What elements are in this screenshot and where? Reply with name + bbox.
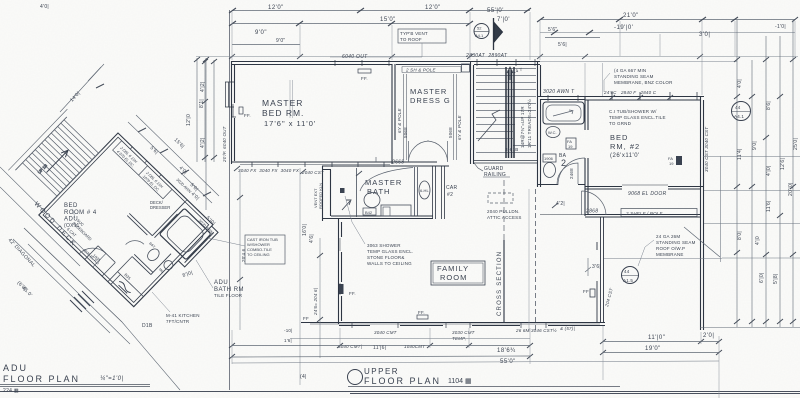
svg-text:M-41 KITCHEN: M-41 KITCHEN — [166, 313, 200, 318]
svg-text:19: 19 — [669, 161, 674, 166]
svg-text:BED: BED — [64, 203, 78, 209]
svg-text:TO CEILING: TO CEILING — [247, 252, 270, 257]
svg-text:FF: FF — [303, 316, 309, 321]
bath tub low — [381, 205, 411, 216]
svg-text:6Y & POLE: 6Y & POLE — [397, 107, 402, 133]
svg-text:(26'x11'0': (26'x11'0' — [610, 153, 640, 159]
svg-text:TEMP GLASS ENCL.: TEMP GLASS ENCL. — [367, 249, 413, 254]
svg-text:224 ▦: 224 ▦ — [3, 388, 19, 394]
extension verticals top band — [232, 12, 795, 95]
svg-text:TILE FLOOR: TILE FLOOR — [214, 293, 243, 298]
stair rails — [506, 67, 514, 158]
sheet left border line — [229, 10, 231, 390]
adu kitchen counter — [108, 257, 158, 307]
ticks on plate line — [229, 54, 703, 59]
deck steps hatch — [70, 291, 94, 312]
master dress shelf top — [402, 67, 461, 73]
wall: bath right — [433, 166, 445, 219]
adu bath door arc — [126, 235, 144, 253]
vent leader — [330, 43, 422, 57]
adu window marks top wall — [130, 147, 187, 202]
right dim col 5 — [792, 20, 794, 327]
svg-text:MEMBRANE, BNZ COLOR: MEMBRANE, BNZ COLOR — [614, 80, 673, 85]
svg-text:CAR: CAR — [446, 185, 458, 191]
svg-text:16'0|: 16'0| — [302, 224, 308, 236]
svg-text:20'/F. 6040 OUT: 20'/F. 6040 OUT — [222, 125, 227, 163]
svg-text:4'6|: 4'6| — [309, 234, 315, 243]
svg-text:TO ROOF: TO ROOF — [400, 37, 422, 42]
right dim col 1 — [736, 20, 738, 327]
svg-text:5068: 5068 — [448, 127, 453, 138]
adu bath bump walls — [178, 226, 218, 267]
svg-text:2668: 2668 — [391, 160, 404, 166]
bath2 tub — [543, 102, 584, 124]
closet door arc — [582, 191, 607, 215]
vent note box — [398, 29, 446, 43]
detail circle 44/A4.1 right — [732, 102, 751, 121]
bath2 wc — [546, 127, 560, 138]
svg-text:2468: 2468 — [569, 168, 574, 179]
site line 1 — [0, 167, 96, 262]
svg-text:2868: 2868 — [585, 209, 598, 215]
svg-text:MASTER: MASTER — [410, 87, 447, 96]
svg-text:B42: B42 — [365, 210, 373, 215]
svg-text:8'1|: 8'1| — [199, 99, 205, 108]
svg-text:3'6|: 3'6| — [592, 264, 601, 270]
left dim col — [204, 60, 206, 162]
adu bath partition — [127, 180, 187, 240]
svg-text:12'0": 12'0" — [268, 5, 284, 11]
svg-text:3040 FX 3040 FX 3040 FX: 3040 FX 3040 FX 3040 FX — [238, 168, 300, 173]
svg-text:ROOFED KLN: ROOFED KLN — [318, 183, 323, 209]
svg-text:5'6|: 5'6| — [558, 42, 567, 48]
svg-text:STANDING SEAM: STANDING SEAM — [614, 74, 654, 79]
bath divider right — [415, 167, 418, 216]
svg-text:6Y & POLE: 6Y & POLE — [457, 114, 462, 140]
adu toilet — [145, 247, 161, 263]
ff small mark bottom right — [590, 289, 595, 297]
adu top dim cols — [197, 58, 206, 210]
svg-text:FF.: FF. — [361, 76, 368, 81]
STAIRS GROUP — [474, 67, 536, 178]
adu sink — [162, 259, 175, 272]
svg-text:18'6¾: 18'6¾ — [497, 348, 516, 354]
top dimension line row 2 left — [232, 23, 470, 25]
wall: bed2 left — [585, 96, 588, 216]
right bottom horiz line — [700, 327, 800, 329]
svg-text:STANDING SEAM: STANDING SEAM — [656, 240, 696, 245]
svg-text:FF: FF — [583, 289, 589, 294]
tick — [96, 84, 104, 88]
svg-text:-10|: -10| — [284, 328, 292, 333]
svg-text:8'6|: 8'6| — [766, 101, 772, 110]
svg-text:11'6|: 11'6| — [766, 200, 772, 212]
svg-text:1R'11 TREADS=24'0½: 1R'11 TREADS=24'0½ — [526, 99, 532, 148]
svg-text:5068: 5068 — [403, 127, 408, 138]
svg-text:15'0": 15'0" — [380, 17, 396, 23]
svg-text:52: 52 — [477, 26, 482, 31]
svg-text:11'|6|: 11'|6| — [373, 345, 386, 351]
svg-text:11'4|: 11'4| — [737, 148, 743, 160]
upper title circle — [348, 370, 363, 385]
NE ticks — [138, 128, 211, 196]
adu outer wall — [39, 133, 213, 307]
dim ticks below — [234, 166, 362, 176]
adu entry door arc bottom — [79, 240, 106, 267]
leader adu bath — [196, 260, 213, 288]
svg-text:FAMILY: FAMILY — [437, 264, 469, 273]
svg-text:4'|2|: 4'|2| — [200, 137, 206, 148]
site line 3 — [28, 244, 130, 344]
svg-text:2 SHELF / POLE: 2 SHELF / POLE — [625, 211, 664, 216]
svg-text:ADU: ADU — [3, 363, 28, 373]
svg-text:55'|0': 55'|0' — [487, 8, 504, 14]
svg-text:1906: 1906 — [544, 156, 554, 161]
stair treads — [22, 120, 98, 196]
wall: bath + bed2 top — [537, 97, 704, 101]
wall: closet bottom bed2 — [585, 215, 700, 218]
svg-text:D1B: D1B — [142, 323, 153, 329]
window marks left wall — [225, 82, 236, 117]
svg-text:DRESS G: DRESS G — [410, 96, 451, 105]
ticks row2 — [229, 21, 473, 26]
ADU dims NE side — [0, 64, 285, 390]
top dimension line row 3 — [232, 44, 300, 46]
svg-text:1040CMT: 1040CMT — [404, 344, 426, 349]
svg-text:24'6C 2840 F 2840 C: 24'6C 2840 F 2840 C — [603, 90, 657, 95]
svg-text:3040 CMT: 3040 CMT — [374, 330, 398, 335]
svg-text:5'|8|: 5'|8| — [773, 273, 779, 284]
svg-text:BED: BED — [610, 133, 628, 142]
attic access dashed — [488, 193, 513, 203]
window lines family bottom — [310, 323, 600, 325]
window ticks top wall — [335, 59, 535, 66]
guard railing line — [474, 161, 537, 164]
dress left shelf band — [404, 74, 407, 160]
right col ticks — [734, 57, 796, 324]
svg-text:2 SH & POLE: 2 SH & POLE — [405, 68, 437, 73]
WALLS GROUP — [225, 59, 737, 330]
right dim col 4 — [779, 36, 781, 327]
svg-text:12'|0: 12'|0 — [186, 114, 192, 126]
bath2 door arc — [557, 163, 578, 184]
svg-text:21'0": 21'0" — [623, 13, 639, 19]
svg-text:7FT/CNTR: 7FT/CNTR — [166, 319, 190, 324]
shower head dot + arrow — [340, 188, 345, 193]
water closet ellipse right — [419, 181, 430, 199]
svg-text:8'0|: 8'0| — [737, 231, 743, 240]
svg-text:3030 CMT: 3030 CMT — [452, 330, 476, 335]
tick marks bed2 top wall — [609, 95, 673, 100]
svg-text:BATH: BATH — [367, 187, 390, 196]
roof diagonal bed2 corner — [684, 227, 720, 257]
vertical extenders bottom — [232, 326, 719, 398]
svg-text:A1.5: A1.5 — [623, 278, 633, 283]
wall: dress left partition — [392, 64, 395, 164]
svg-text:(4|: (4| — [300, 374, 307, 380]
window sill marks master bed bottom — [252, 162, 384, 167]
right dim col 2 — [751, 60, 753, 327]
ticks right row1 — [537, 17, 798, 22]
slanted extension above stairs — [60, 64, 104, 112]
svg-text:9'0": 9'0" — [255, 30, 267, 36]
svg-text:4'|2|: 4'|2| — [200, 81, 206, 92]
top dimension line row 1 left — [232, 10, 530, 12]
roofline right of stairs — [540, 61, 737, 63]
short dim line 5'6 — [545, 37, 600, 39]
dim line x300 vertical — [299, 168, 301, 385]
window marks bed2 top — [612, 92, 697, 100]
svg-text:3063 SHOWER: 3063 SHOWER — [367, 243, 401, 248]
adu small closet bottom — [85, 246, 115, 276]
wall: bath2 bottom — [537, 184, 585, 186]
hall door to bed2 arc — [558, 158, 585, 185]
svg-text:7'|0': 7'|0' — [497, 17, 510, 23]
right dim col 3 — [765, 36, 767, 327]
left col ticks — [202, 59, 217, 160]
stair direction arrow — [44, 148, 70, 174]
svg-text:TYP'B VENT: TYP'B VENT — [400, 31, 428, 36]
window pocket lines — [290, 80, 293, 118]
window lines bottom master bed — [240, 164, 390, 166]
svg-text:14R@7¾"=UP 17R: 14R@7¾"=UP 17R — [520, 106, 525, 148]
dashed beam lines — [528, 189, 530, 332]
svg-text:FLOOR PLAN: FLOOR PLAN — [364, 376, 441, 386]
svg-text:ROOF O/W.P: ROOF O/W.P — [656, 246, 685, 251]
svg-text:24 GA 26M: 24 GA 26M — [656, 234, 680, 239]
stair stringers — [15, 117, 101, 204]
svg-text:W.C.: W.C. — [548, 130, 557, 135]
bath2 toilet — [543, 154, 556, 162]
wall: master bath bottom — [322, 216, 433, 219]
detail circle 52/A4.1 — [474, 24, 489, 39]
svg-text:DRESSER: DRESSER — [150, 205, 170, 210]
site line 2 — [0, 187, 80, 266]
svg-text:4'|0: 4'|0 — [755, 236, 761, 245]
svg-text:2040 PULLDN.: 2040 PULLDN. — [487, 209, 520, 214]
svg-text:C.I TUB/SHOWER W/: C.I TUB/SHOWER W/ — [609, 109, 657, 114]
DIMENSIONS GROUP — [186, 20, 800, 398]
TITLES — [0, 363, 620, 394]
svg-text:& (57)|: & (57)| — [560, 326, 575, 331]
wall: family bottom — [301, 323, 605, 326]
sheet bottom border line — [0, 392, 800, 394]
cross section line — [503, 240, 505, 322]
wall: family left — [339, 218, 342, 324]
plate line across sheet — [196, 56, 798, 58]
wall: master bath block left — [322, 166, 331, 221]
site tail line — [122, 322, 180, 390]
tick 5'6 — [551, 30, 593, 35]
svg-text:-19'|0': -19'|0' — [614, 25, 633, 31]
svg-text:A4.1: A4.1 — [475, 33, 484, 38]
svg-text:A4.1: A4.1 — [734, 114, 744, 119]
svg-text:6'|0|: 6'|0| — [759, 272, 765, 283]
bottom dim row B — [232, 353, 719, 358]
NE dim line 2 — [136, 115, 219, 196]
master bed wardrobe tick — [375, 157, 377, 162]
svg-text:3H 1B: 3H 1B — [505, 147, 519, 152]
svg-text:WALLS TO CEILING: WALLS TO CEILING — [367, 261, 412, 266]
svg-text:FF.: FF. — [349, 291, 356, 296]
svg-text:3020 AWN T: 3020 AWN T — [543, 89, 575, 95]
svg-text:ROOM # 4: ROOM # 4 — [64, 210, 97, 216]
stair treads — [476, 69, 536, 153]
adu closet band — [113, 141, 172, 199]
svg-text:9'0|: 9'0| — [752, 141, 758, 150]
wall: stair right / bath left — [538, 61, 541, 187]
window mark bath top — [548, 95, 578, 101]
family room box label — [431, 261, 485, 285]
svg-text:4'0|: 4'0| — [737, 79, 743, 88]
svg-text:3040 CST 3040 CST: 3040 CST 3040 CST — [704, 126, 709, 172]
closet shelf box — [621, 209, 697, 217]
svg-text:6040 OUT: 6040 OUT — [342, 54, 368, 60]
ff marker top wall — [358, 69, 371, 73]
right horiz dim lines — [703, 157, 800, 259]
svg-text:44: 44 — [735, 105, 741, 110]
top dimension right row2 — [540, 32, 795, 34]
svg-text:FLOOR PLAN: FLOOR PLAN — [3, 374, 80, 384]
bed2 fa marker right — [676, 156, 682, 165]
wall: bed2 bottom — [585, 187, 704, 190]
dress door arc left — [409, 141, 430, 162]
wall: family SE vertical — [597, 217, 604, 323]
svg-text:12'6|: 12'6| — [780, 158, 786, 170]
svg-text:20'|0|: 20'|0| — [788, 182, 794, 196]
cast iron note box — [245, 235, 285, 264]
svg-text:MASTER: MASTER — [365, 178, 402, 187]
ff marker master bed — [239, 107, 243, 114]
svg-text:BED RM.: BED RM. — [262, 108, 304, 118]
svg-text:(OX11: (OX11 — [64, 223, 80, 229]
bottom dim row A left — [232, 345, 530, 347]
svg-text:FF.: FF. — [244, 113, 251, 118]
svg-text:RM, #2: RM, #2 — [610, 142, 640, 151]
ADU rotated group — [39, 133, 220, 313]
svg-text:UPPER: UPPER — [364, 367, 399, 376]
dress right shelf band — [454, 74, 457, 160]
svg-text:ROOM: ROOM — [440, 273, 467, 282]
svg-text:4'|0|: 4'|0| — [766, 165, 772, 176]
svg-text:25'0|: 25'0| — [793, 138, 799, 150]
bath divider shower — [356, 168, 358, 217]
ff marker family bottom — [417, 315, 428, 319]
svg-text:24'6= 204 6|: 24'6= 204 6| — [313, 288, 318, 316]
svg-text:MASTER: MASTER — [262, 98, 303, 108]
wall: dress/stair divider — [471, 61, 474, 164]
bath door arc top — [360, 168, 413, 192]
left lower dim line — [239, 170, 241, 330]
svg-text:44: 44 — [624, 269, 630, 274]
svg-text:STONE FLOOR&: STONE FLOOR& — [367, 255, 405, 260]
kitchen squiggle — [117, 280, 132, 294]
section marker diamond — [493, 18, 495, 50]
NE dim line 1 — [128, 122, 212, 203]
wall: master bed bottom / bath top — [231, 162, 449, 166]
svg-text:5'6": 5'6" — [548, 27, 558, 33]
wall: hall bottom — [540, 214, 585, 216]
svg-text:TEMP GLASS ENCL.TILE: TEMP GLASS ENCL.TILE — [609, 115, 666, 120]
wall: right outer — [701, 96, 704, 330]
svg-text:4'0|: 4'0| — [40, 4, 49, 10]
svg-text:-1'0|: -1'0| — [775, 24, 786, 30]
dress door arc right — [427, 141, 448, 162]
bath wc ellipse — [364, 193, 380, 208]
svg-text:9068 EL DOOR: 9068 EL DOOR — [628, 191, 667, 197]
top dimension right row1 — [540, 19, 795, 21]
roof overhang rect right — [604, 156, 722, 262]
svg-text:1104 ▦: 1104 ▦ — [448, 378, 472, 385]
svg-text:ADU: ADU — [64, 217, 78, 223]
wall: master bed left — [232, 61, 235, 164]
deck outer edge 1 — [24, 228, 122, 322]
window sill ticks family bottom — [352, 322, 546, 328]
stair break line — [478, 110, 500, 141]
svg-text:3'0|: 3'0| — [699, 32, 710, 38]
svg-text:19'0": 19'0" — [645, 346, 661, 352]
svg-text:FF.: FF. — [418, 310, 425, 315]
tick marks row1 — [229, 8, 531, 13]
svg-text:2830AT 2890AT: 2830AT 2890AT — [465, 53, 508, 59]
svg-text:¼"=1'0|: ¼"=1'0| — [100, 376, 124, 382]
svg-text:CROSS SECTION: CROSS SECTION — [497, 251, 503, 316]
svg-text:TO GRND: TO GRND — [609, 121, 632, 126]
door line 9068 — [622, 184, 668, 186]
deck outer edge 2 — [13, 239, 110, 333]
svg-text:ADU: ADU — [214, 280, 228, 286]
stair side rail — [8, 109, 67, 170]
bottom dim row C — [232, 361, 719, 363]
adu wc compartment walls — [132, 236, 171, 275]
svg-text:(4 GA 667 MIN: (4 GA 667 MIN — [614, 68, 646, 73]
svg-text:6-HL: 6-HL — [420, 188, 429, 193]
svg-text:17'6" x 11'0': 17'6" x 11'0' — [264, 119, 316, 128]
svg-text:19: 19 — [568, 144, 573, 149]
bottom dim row A right — [603, 341, 719, 343]
svg-text:2'0|: 2'0| — [703, 333, 714, 339]
bath2 fa unit — [566, 138, 576, 149]
INTERIOR GROUP — [234, 64, 722, 351]
extension vertical bed2 left — [585, 63, 603, 96]
dim col x320 — [319, 238, 321, 358]
window marks family left wall — [339, 238, 341, 295]
svg-text:12'0": 12'0" — [425, 5, 441, 11]
ADU stairs hatch — [8, 109, 105, 207]
detail circle 44/A1.5 — [622, 267, 639, 284]
shelf end box — [462, 64, 470, 72]
svg-text:MEMBRANE: MEMBRANE — [656, 252, 684, 257]
svg-text:11'|0": 11'|0" — [648, 335, 665, 341]
svg-text:#2: #2 — [447, 192, 453, 198]
adu tub — [159, 208, 211, 260]
wall: master bed + dress + stair top — [231, 62, 540, 65]
ff marker family left — [339, 284, 344, 294]
svg-text:9'0": 9'0" — [276, 38, 286, 44]
stair up arrow — [507, 67, 513, 80]
